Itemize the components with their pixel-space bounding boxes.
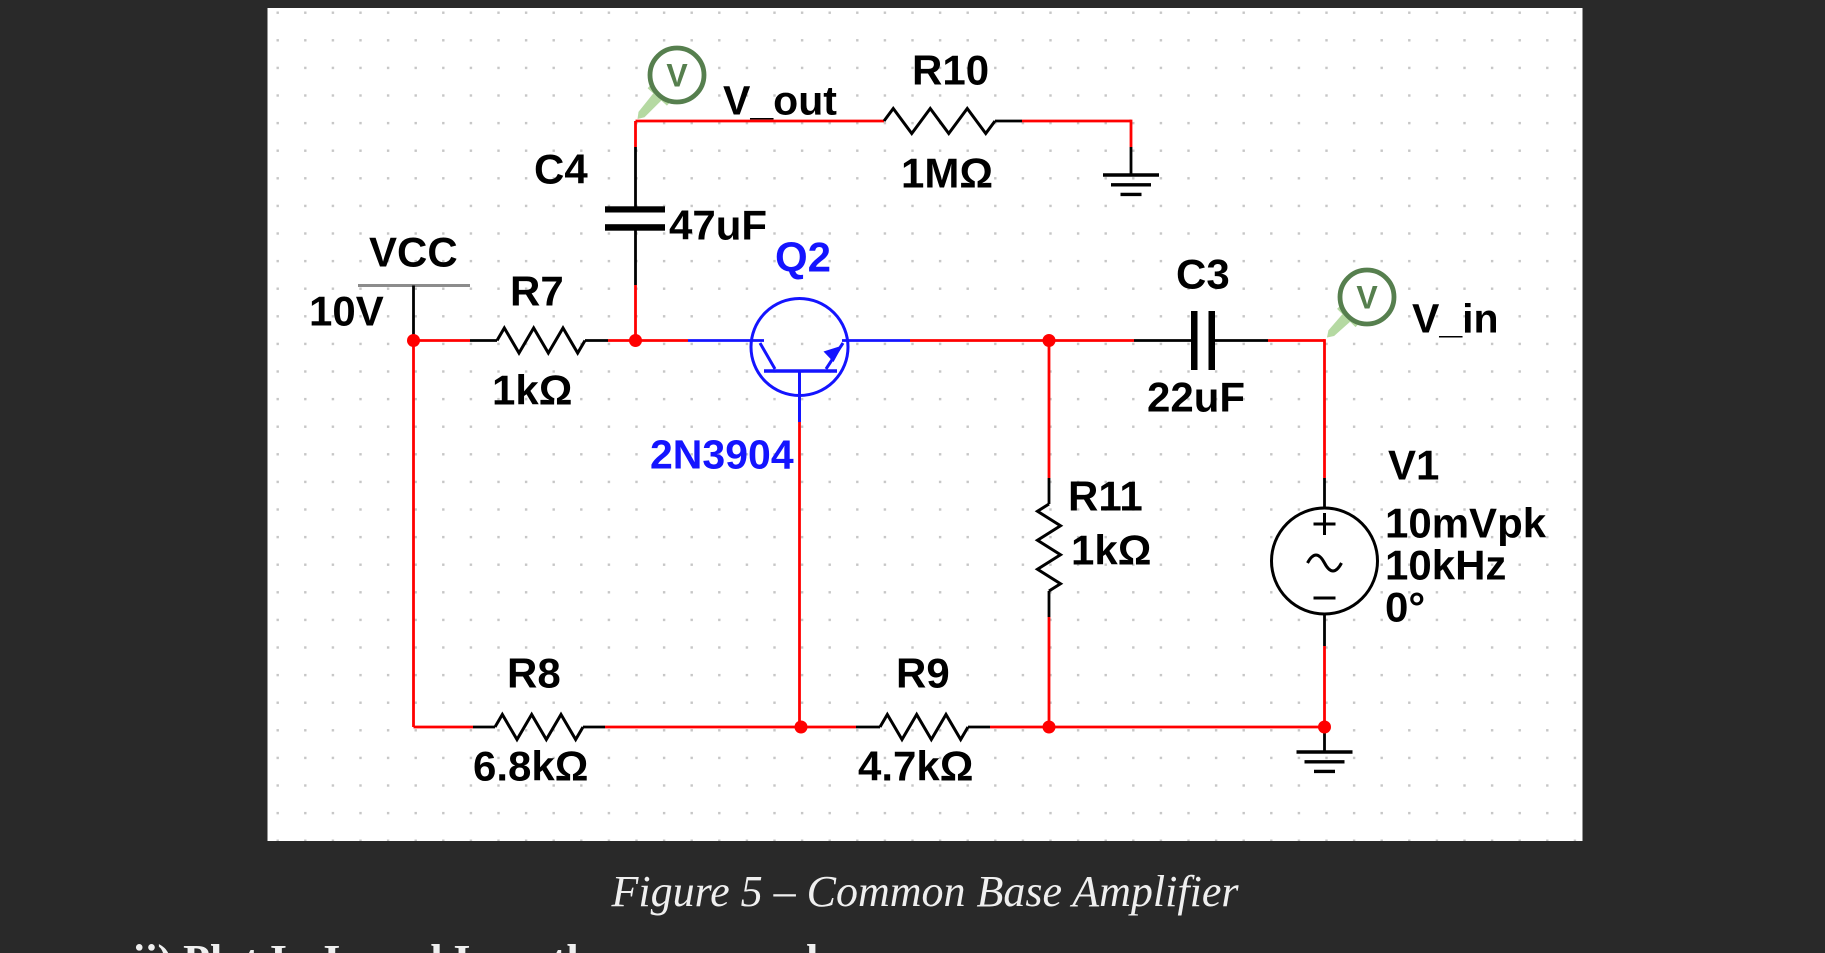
capacitor C3 ref label (1176, 251, 1230, 298)
svg-text:10mVpk: 10mVpk (1385, 500, 1547, 547)
wire VCC to R7 (red) (414, 339, 471, 342)
voltage probe V_out (638, 48, 705, 119)
wire VCC column down (red) (412, 341, 415, 728)
wire R11 top lead (black) (1048, 478, 1051, 504)
resistor R9 ref label (896, 650, 950, 697)
svg-text:4.7kΩ: 4.7kΩ (858, 743, 973, 790)
wire C3 to V_in corner (red) (1268, 339, 1325, 478)
wire R10 right to corner (red) (1022, 120, 1131, 147)
wire R9 to node E (red) (990, 726, 1049, 729)
transistor Q2 value 2N3904 (650, 432, 794, 478)
wire R8 left lead (black) (473, 726, 495, 729)
svg-text:47uF: 47uF (669, 202, 767, 249)
resistor R8 body (495, 715, 583, 740)
source V1 value 0&#176; (1385, 584, 1425, 631)
node VCC/R7 junction (407, 334, 420, 347)
source V1 symbol (1272, 508, 1378, 614)
capacitor C4 plates (605, 206, 665, 230)
resistor R11 value 1k&#937; (1071, 527, 1151, 574)
wire node C down to R11 (red) (1048, 341, 1051, 479)
transistor Q2 ref label (775, 234, 831, 281)
voltage probe V_in (1327, 270, 1394, 338)
wire C4 top lead (black) (634, 147, 637, 207)
wire bottom rail left to R8 (red) (414, 726, 474, 729)
resistor R10 ref label (912, 47, 989, 94)
wire V1 top lead (black) (1323, 478, 1326, 509)
svg-text:1kΩ: 1kΩ (492, 367, 572, 414)
wire Q2 base down (blue then red) (798, 371, 801, 727)
svg-text:R7: R7 (510, 268, 564, 315)
svg-text:V: V (666, 58, 688, 94)
wire R11 bottom lead (black) (1048, 591, 1051, 617)
source V1 ref label (1388, 442, 1439, 489)
node ground junction (V1/GND) (1318, 721, 1331, 734)
svg-text:V: V (1356, 280, 1378, 316)
svg-text:R8: R8 (507, 650, 561, 697)
svg-text:R10: R10 (912, 47, 989, 94)
svg-text:Q2: Q2 (775, 234, 831, 281)
wire R7 right lead (black) (585, 339, 608, 342)
power VCC symbol (358, 286, 470, 341)
wire R8 to node D (red) (605, 726, 801, 729)
wire Q2 emitter to node C (blue then red) (842, 339, 1049, 342)
wire C4 to node B (red) (634, 285, 637, 341)
wire V_out top rail (red) (636, 120, 885, 123)
wire C3 left lead (black) (1134, 339, 1191, 342)
node B junction (R7/C4/Q2) (629, 334, 642, 347)
resistor R7 ref label (510, 268, 564, 315)
capacitor C3 plates (1191, 311, 1215, 370)
source V1 value 10mVpk (1385, 500, 1547, 547)
schematic canvas background (268, 8, 1583, 841)
source V1 value 10kHz (1385, 542, 1506, 589)
resistor R11 ref label (1068, 473, 1143, 520)
wire node E to ground node (red) (1049, 726, 1325, 729)
wire R7 to node B (red) (608, 339, 636, 342)
wire R8 right lead (black) (583, 726, 605, 729)
probe label V_out (723, 78, 837, 124)
wire C4 bottom lead (black) (634, 231, 637, 286)
power VCC value 10V (309, 288, 384, 335)
node E junction (R9/R11) (1043, 721, 1056, 734)
svg-text:6.8kΩ: 6.8kΩ (473, 743, 588, 790)
svg-text:10V: 10V (309, 288, 384, 335)
wire node D to R9 (red) (801, 726, 856, 729)
resistor R10 value 1M&#937; (901, 150, 993, 197)
resistor R10 body (884, 109, 995, 134)
svg-text:V_out: V_out (723, 78, 837, 124)
svg-text:ii) Plot IC-IB and IE vs the c: ii) Plot IC-IB and IE vs the common d (133, 936, 818, 953)
svg-text:C4: C4 (534, 146, 588, 193)
ground GND2 bottom right (1297, 727, 1353, 771)
probe label V_in (1412, 296, 1499, 342)
wire R11 to node E (red) (1048, 617, 1051, 727)
node C junction (Q2/C3/R11) (1043, 334, 1056, 347)
partially visible body text (133, 936, 818, 953)
wire corner down to top ground (black) (1130, 147, 1133, 175)
wire R7 left lead (black) (470, 339, 497, 342)
wire node B to Q2 collector (red then blue) (636, 339, 765, 342)
wire C3 right lead (black) (1215, 339, 1268, 342)
node D junction (R8/R9/Q2 base) (795, 721, 808, 734)
svg-text:Figure 5 – Common Base Amplifi: Figure 5 – Common Base Amplifier (611, 867, 1240, 916)
resistor R11 body (vertical) (1038, 504, 1061, 591)
wire C4 top stub (red) (634, 121, 637, 147)
resistor R7 value 1k&#937; (492, 367, 572, 414)
svg-text:VCC: VCC (369, 229, 458, 276)
transistor Q2 symbol (751, 299, 848, 396)
svg-text:10kHz: 10kHz (1385, 542, 1506, 589)
wire V1 bottom lead (black) (1323, 614, 1326, 647)
ground GND1 top right (1103, 175, 1159, 194)
capacitor C4 ref label (534, 146, 588, 193)
svg-text:22uF: 22uF (1147, 374, 1245, 421)
capacitor C3 value 22uF (1147, 374, 1245, 421)
wire R9 right lead (black) (968, 726, 990, 729)
svg-text:1kΩ: 1kΩ (1071, 527, 1151, 574)
resistor R9 body (880, 715, 968, 740)
resistor R9 value 4.7k&#937; (858, 743, 973, 790)
svg-text:V_in: V_in (1412, 296, 1499, 342)
svg-text:R9: R9 (896, 650, 950, 697)
svg-text:0°: 0° (1385, 584, 1425, 631)
svg-text:1MΩ: 1MΩ (901, 150, 993, 197)
wire R9 left lead (black) (856, 726, 880, 729)
wire R10 right lead (black) (995, 120, 1022, 123)
wire V1 to bottom rail (red) (1323, 646, 1326, 727)
power VCC label (369, 229, 458, 276)
capacitor C4 value 47uF (669, 202, 767, 249)
svg-text:C3: C3 (1176, 251, 1230, 298)
wire node C to C3 (red) (1049, 339, 1134, 342)
resistor R7 body (497, 328, 585, 353)
svg-text:2N3904: 2N3904 (650, 432, 794, 478)
svg-text:R11: R11 (1068, 473, 1143, 520)
resistor R8 value 6.8k&#937; (473, 743, 588, 790)
figure caption (611, 867, 1240, 916)
svg-text:V1: V1 (1388, 442, 1439, 489)
resistor R8 ref label (507, 650, 561, 697)
